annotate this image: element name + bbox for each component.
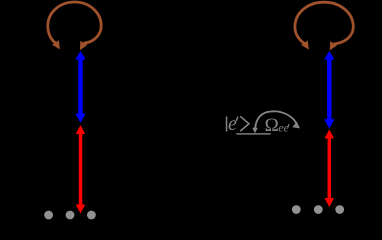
svg-text:ee: ee (278, 120, 289, 134)
svg-text:Ω: Ω (265, 115, 279, 136)
left loop arrowhead right (80, 41, 88, 50)
left ground-band dots (44, 211, 96, 220)
annotation: arc start arrowhead (down) (252, 128, 258, 133)
right loop arrowhead left (301, 41, 309, 50)
annotation: right angle bracket of |e'> (240, 116, 249, 131)
right diagram: scattering loop arrow (brown) (295, 2, 353, 44)
left diagram: scattering loop arrow (brown) (48, 2, 101, 44)
annotation: Omega_ee' coupling arc (255, 111, 297, 129)
left blue double arrow (75, 51, 85, 123)
annotation: prime of subscript (288, 124, 289, 127)
annotation: arc end arrowhead (down-right) (292, 121, 300, 128)
svg-text:e: e (228, 113, 237, 135)
right red double arrow (325, 130, 335, 208)
right loop arrowhead right (330, 41, 338, 50)
right blue double arrow (324, 51, 334, 129)
annotation: prime of |e'> (236, 117, 238, 121)
annotation: ket bar of |e'> (226, 117, 228, 132)
left loop arrowhead left (52, 40, 60, 49)
left red double arrow (76, 125, 86, 214)
annotation: level line under |e'> (236, 133, 270, 134)
right ground-band dots (292, 205, 344, 214)
